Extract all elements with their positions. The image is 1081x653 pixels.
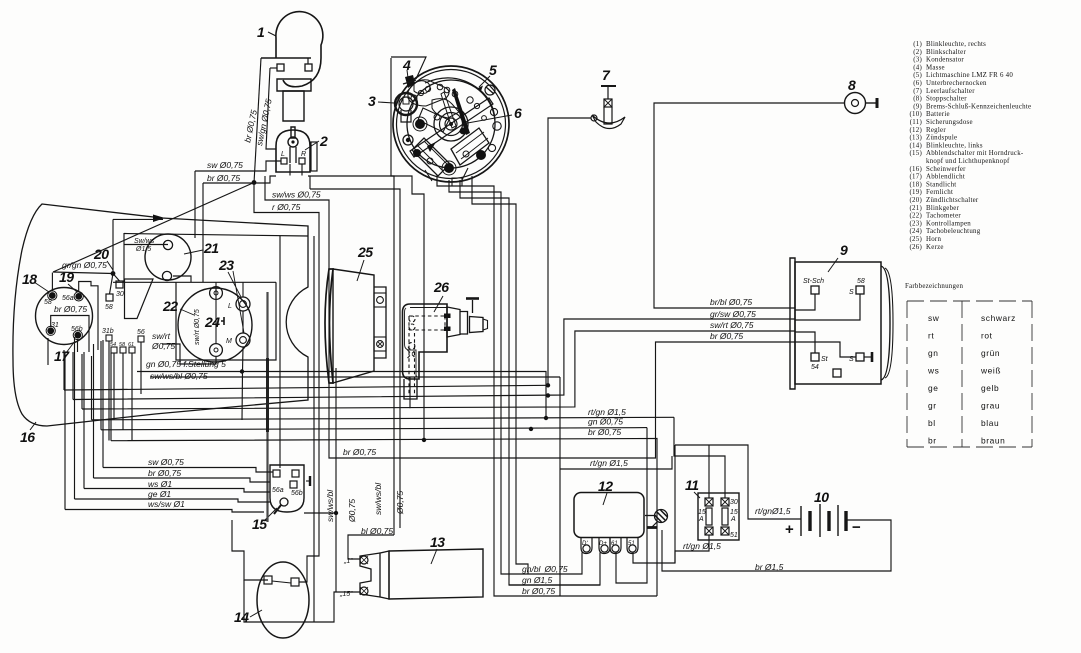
- svg-text:R: R: [301, 151, 306, 158]
- wire stub switch 2 base right: [309, 176, 311, 189]
- svg-text:31: 31: [51, 322, 59, 329]
- flasher relay (21): [134, 234, 219, 281]
- wire terminal 56 down to gr/sw bus: [140, 342, 142, 394]
- svg-text:58: 58: [119, 342, 126, 348]
- svg-text:ge Ø1: ge Ø1: [148, 489, 171, 499]
- svg-text:(3): (3): [913, 57, 922, 64]
- wire horn button feed from switch 15: [304, 512, 336, 514]
- svg-text:(15): (15): [910, 150, 922, 157]
- wire bulb terminal 56a up and right: [79, 282, 98, 351]
- svg-text:br: br: [928, 436, 937, 446]
- turn signal right (1): [257, 12, 323, 121]
- svg-text:Kerze: Kerze: [926, 244, 944, 251]
- svg-text:sw/rt Ø0,75: sw/rt Ø0,75: [710, 320, 754, 330]
- wire terminal 31b down to br bus: [108, 341, 110, 441]
- svg-text:15: 15: [730, 509, 738, 516]
- svg-text:8: 8: [848, 77, 856, 93]
- junction gn f.Stellung / lamp M drop: [240, 369, 244, 373]
- svg-text:Ø1,5: Ø1,5: [135, 246, 151, 253]
- svg-text:Blinkleuchte, links: Blinkleuchte, links: [926, 142, 983, 149]
- svg-text:1: 1: [257, 24, 265, 40]
- wire riser rt/gn at headlight: [91, 356, 93, 420]
- svg-text:Sicherungsdose: Sicherungsdose: [926, 119, 973, 126]
- svg-text:Scheinwerfer: Scheinwerfer: [926, 166, 966, 173]
- svg-text:br Ø0,75: br Ø0,75: [148, 468, 181, 478]
- svg-text:54: 54: [811, 364, 819, 371]
- svg-text:sw/ws/bl Ø0,75: sw/ws/bl Ø0,75: [150, 371, 208, 381]
- svg-text:gr/gn Ø0,75: gr/gn Ø0,75: [62, 260, 107, 270]
- svg-text:A: A: [730, 516, 736, 523]
- svg-text:sw/rt Ø0,75: sw/rt Ø0,75: [194, 309, 201, 345]
- svg-text:bl: bl: [928, 418, 936, 428]
- wire rt/gn 1.5 regulator frame: [560, 456, 672, 469]
- wire lamp M drop to junction: [242, 347, 243, 420]
- wire br 0.75 headlight to blinker switch 2 base: [203, 176, 276, 183]
- wire gr/gn 0.75 horizontal: [53, 272, 113, 274]
- wire sw/ws/bl vertical with junction: [335, 368, 337, 592]
- svg-text:(8): (8): [913, 96, 922, 103]
- terminal strip in headlight: [102, 328, 145, 353]
- svg-text:br Ø0,75: br Ø0,75: [588, 427, 621, 437]
- wire stubs switch 2 terminals L and R: [290, 164, 302, 176]
- svg-text:br/bl Ø0,75: br/bl Ø0,75: [710, 297, 752, 307]
- svg-text:blau: blau: [981, 418, 999, 428]
- svg-text:25: 25: [357, 244, 373, 260]
- wire sw/gn 0.75 from turn signal 1 left terminal to blinker switch 2: [266, 68, 276, 149]
- headlight bulb (17,18,19): [22, 269, 93, 364]
- bottom lug: [452, 178, 462, 186]
- svg-text:sw: sw: [928, 313, 940, 323]
- wire br 0.75 to dimmer switch 15: [94, 478, 271, 482]
- svg-text:sw/ws/bl: sw/ws/bl: [325, 489, 335, 522]
- junction horn button feed: [334, 511, 338, 515]
- wire ws/sw 1 to dimmer switch 15: [65, 510, 264, 513]
- wire br 0.75 drop into headlight: [202, 183, 204, 282]
- svg-text:(19): (19): [910, 189, 922, 196]
- kontrollampen 23: [236, 297, 250, 311]
- svg-text:rt: rt: [928, 331, 934, 341]
- svg-text:grau: grau: [981, 401, 1000, 411]
- svg-text:56a: 56a: [62, 295, 74, 302]
- wire riser br at headlight: [110, 353, 112, 441]
- coils bottom: [412, 138, 450, 176]
- wire gr/sw 0.75 bus to tail light terminal 58: [73, 319, 795, 400]
- svg-text:58: 58: [105, 304, 113, 311]
- svg-text:58: 58: [857, 278, 865, 285]
- wire neutral switch 7 down to rt/gn bus: [548, 118, 591, 385]
- svg-text:18: 18: [22, 271, 37, 287]
- svg-text:gn Ø0,75: gn Ø0,75: [588, 417, 623, 427]
- wire terminal 61 down to br bus: [131, 353, 133, 441]
- screws right: [485, 85, 495, 95]
- wire sw/ws 0.75 from switch 2 base down and right: [265, 176, 329, 280]
- svg-text:Batterie: Batterie: [926, 111, 950, 118]
- wire riser gr/sw at headlight: [63, 350, 65, 390]
- fuse box (11): [685, 477, 739, 540]
- ignition coil (13): [339, 534, 483, 599]
- svg-text:−: −: [852, 519, 861, 536]
- svg-text:Kondensator: Kondensator: [926, 57, 964, 64]
- wire sw/rt 0.75 bus to tail light terminal St: [82, 331, 795, 409]
- wire mid bus to neutral junction: [64, 385, 548, 390]
- svg-text:16: 16: [20, 429, 35, 445]
- svg-text:21: 21: [203, 240, 219, 256]
- svg-text:St-Sch: St-Sch: [803, 278, 824, 285]
- junction node gr/gn: [111, 271, 116, 276]
- wire loop turn signal 14 to ignition coil terminal 15: [244, 580, 360, 622]
- svg-text:rot: rot: [981, 331, 993, 341]
- svg-text:grün: grün: [981, 348, 1000, 358]
- wire between tacho lamps 24: [242, 311, 244, 333]
- svg-text:Tachobeleuchtung: Tachobeleuchtung: [926, 228, 981, 235]
- svg-text:Blinkgeber: Blinkgeber: [926, 205, 960, 212]
- svg-text:(24): (24): [910, 228, 922, 235]
- wire sw 0.75 headlight to blinker switch 2 terminal L: [195, 161, 281, 171]
- svg-text:51: 51: [730, 532, 738, 539]
- svg-text:weiß: weiß: [980, 366, 1001, 376]
- svg-text:gn Ø1,5: gn Ø1,5: [522, 575, 553, 585]
- label 5: [478, 62, 497, 91]
- wire gn 0.75 regulator terminal 61 to gn bus: [616, 428, 647, 583]
- svg-text:D+: D+: [599, 541, 607, 547]
- svg-text:56a: 56a: [272, 487, 284, 494]
- svg-text:61: 61: [128, 342, 134, 348]
- svg-text:A: A: [698, 516, 704, 523]
- wire condenser frame left down to br bus: [391, 58, 424, 440]
- wire below bulb down: [47, 338, 49, 365]
- svg-text:56b: 56b: [71, 326, 83, 333]
- svg-text:Farbbezeichnungen: Farbbezeichnungen: [905, 283, 964, 290]
- colour table: [907, 301, 1032, 447]
- svg-text:rt/gn Ø1,5: rt/gn Ø1,5: [588, 407, 626, 417]
- svg-text:Regler: Regler: [926, 127, 946, 134]
- wire riser ge 1: [74, 337, 76, 499]
- svg-text:15: 15: [252, 516, 267, 532]
- wire bulb terminal 58 to gr/gn: [51, 273, 53, 292]
- battery (10): [785, 489, 861, 538]
- svg-text:Fernlicht: Fernlicht: [926, 189, 953, 196]
- wire bulb terminal 31 ground br: [51, 316, 89, 353]
- wire vertical inside headlight right: [279, 236, 281, 468]
- condenser (3): [368, 93, 417, 122]
- black dots: [403, 135, 413, 145]
- horn (25): [325, 244, 386, 383]
- junction br wire / turn signal feed: [252, 180, 257, 185]
- headlight outline (16): [13, 204, 308, 522]
- svg-text:sw/rt: sw/rt: [152, 331, 171, 341]
- svg-text:(13): (13): [910, 135, 922, 142]
- svg-text:31b: 31b: [102, 328, 114, 335]
- tail light (9): [790, 242, 893, 389]
- wire riser ws 1: [83, 352, 85, 489]
- svg-text:23: 23: [218, 257, 234, 273]
- wire spark plug stem to bus: [409, 377, 411, 408]
- wire sw/ws/bl 0.75 bus: [150, 376, 560, 378]
- svg-text:(21): (21): [910, 205, 922, 212]
- svg-text:ws: ws: [927, 366, 939, 376]
- wire condenser frame top with diagonal to rim: [391, 57, 426, 79]
- svg-text:26: 26: [433, 279, 449, 295]
- svg-text:(1): (1): [913, 41, 922, 48]
- wire r 0.75 from junction to turn signal 14 right terminal: [254, 183, 319, 582]
- wire stub turn signal 1 left terminal: [270, 67, 277, 69]
- wire gn 1.5 alternator to regulator terminal D+: [460, 180, 600, 585]
- svg-text:br Ø0,75: br Ø0,75: [54, 304, 87, 314]
- svg-text:Tachometer: Tachometer: [926, 213, 961, 220]
- svg-text:(5): (5): [913, 72, 922, 79]
- svg-text:56: 56: [137, 329, 145, 336]
- wire gn 1.5 horizontal to terminal D+: [509, 584, 600, 586]
- svg-text:braun: braun: [981, 436, 1005, 446]
- svg-text:15: 15: [698, 509, 706, 516]
- svg-text:sw/ws/bl: sw/ws/bl: [373, 482, 383, 515]
- svg-text:Ø0,75: Ø0,75: [151, 341, 175, 351]
- svg-text:(4): (4): [913, 64, 922, 71]
- svg-text:Abblendschalter mit Horndruck-: Abblendschalter mit Horndruck-: [926, 150, 1024, 157]
- svg-text:19: 19: [59, 269, 74, 285]
- svg-text:+: +: [785, 521, 794, 538]
- wire vertical from headlight top edge to coil loop: [313, 236, 315, 622]
- svg-text:30: 30: [116, 291, 124, 298]
- svg-text:(14): (14): [910, 142, 922, 149]
- wire switch 2 base to vertical x394 down to bl wire: [308, 176, 394, 535]
- wire alternator ignition feed: [472, 176, 528, 574]
- svg-text:M: M: [226, 338, 232, 345]
- svg-text:gr: gr: [928, 401, 937, 411]
- svg-text:gn/bl Ø0,75: gn/bl Ø0,75: [522, 564, 568, 574]
- svg-text:rt/gn Ø1,5: rt/gn Ø1,5: [683, 541, 721, 551]
- svg-text:br Ø0,75: br Ø0,75: [522, 586, 555, 596]
- wire terminal 54 down to rt/gn bus: [113, 353, 115, 420]
- svg-text:br Ø0,75: br Ø0,75: [207, 173, 240, 183]
- wire rt/gn 1.5 bus: [92, 417, 675, 420]
- svg-text:24: 24: [204, 314, 220, 330]
- wire terminal 58 down to gn bus: [122, 353, 124, 430]
- svg-text:30: 30: [730, 499, 738, 506]
- svg-text:St: St: [821, 356, 829, 363]
- wire gn 0.75 f.Stellung 5: [137, 372, 546, 419]
- svg-text:sw Ø0,75: sw Ø0,75: [148, 457, 184, 467]
- svg-text:13: 13: [430, 534, 445, 550]
- svg-text:Blinkschalter: Blinkschalter: [926, 49, 966, 56]
- wire turn signal 14 left terminal staircase: [232, 520, 268, 580]
- svg-text:(9): (9): [913, 103, 922, 110]
- svg-text:br Ø0,75: br Ø0,75: [710, 331, 743, 341]
- svg-text:S: S: [849, 289, 854, 296]
- neutral switch (7): [591, 67, 625, 129]
- svg-text:Leerlaufschalter: Leerlaufschalter: [926, 88, 975, 95]
- junction gn bus: [529, 427, 533, 431]
- svg-text:rt/gnØ1,5: rt/gnØ1,5: [755, 506, 791, 516]
- pointer triangle: [427, 142, 436, 152]
- svg-text:12: 12: [598, 478, 613, 494]
- svg-text:5: 5: [489, 62, 497, 78]
- wire gr/gn 0.75 diagonal to junction: [53, 183, 254, 273]
- svg-text:Brems-Schluß-Kennzeichenleucht: Brems-Schluß-Kennzeichenleuchte: [926, 103, 1031, 110]
- wire rt/gn 1.5 riser between fuse bus and 51: [674, 445, 676, 563]
- svg-text:Ø0,75: Ø0,75: [395, 491, 405, 515]
- junction leerlauf wire / rt-gn bus: [546, 393, 550, 397]
- svg-text:58: 58: [44, 299, 52, 306]
- svg-text:br Ø1,5: br Ø1,5: [755, 562, 784, 572]
- svg-text:br Ø0,75: br Ø0,75: [343, 447, 376, 457]
- junction br bus / condenser frame: [422, 438, 426, 442]
- svg-text:Zündspule: Zündspule: [926, 135, 957, 142]
- wire riser gn at headlight: [100, 341, 102, 430]
- svg-text:11: 11: [685, 477, 699, 493]
- breaker bar diagonal: [410, 98, 493, 157]
- wire bulb terminal 56b down: [77, 339, 79, 352]
- slot groups with circles: [411, 95, 417, 101]
- svg-text:gn: gn: [928, 348, 939, 358]
- wire rt/gn 1.5 fuse to battery plus: [675, 445, 801, 519]
- wire br 1.5 battery minus to ground screw: [662, 520, 891, 571]
- svg-text:Lichtmaschine LMZ FR 6 40: Lichtmaschine LMZ FR 6 40: [926, 72, 1013, 79]
- wire gn 0.75 bus: [101, 428, 647, 430]
- svg-text:(20): (20): [910, 197, 922, 204]
- svg-text:Unterbrechernocken: Unterbrechernocken: [926, 80, 987, 87]
- svg-text:(2): (2): [913, 49, 922, 56]
- svg-text:(25): (25): [910, 236, 922, 243]
- svg-text:(22): (22): [910, 213, 922, 220]
- wire br 0.75 from turn signal 1 right terminal down to junction: [254, 58, 261, 183]
- wire forks from node to ignition switch terminals 30 and 58: [110, 274, 120, 295]
- svg-text:(12): (12): [910, 127, 922, 134]
- svg-text:Abblendlicht: Abblendlicht: [926, 174, 965, 181]
- svg-text:L: L: [281, 151, 285, 158]
- svg-text:(16): (16): [910, 166, 922, 173]
- svg-text:10: 10: [814, 489, 829, 505]
- junction gn f.Stellung / rt-gn bus: [544, 416, 548, 420]
- wire flasher 21 bottom terminal to tacho box: [173, 276, 191, 282]
- svg-text:Zündlichtschalter: Zündlichtschalter: [926, 197, 979, 204]
- wire sw 0.75 drop into headlight: [194, 171, 196, 238]
- svg-text:Stoppschalter: Stoppschalter: [926, 96, 967, 103]
- wire riser br 0.75: [93, 344, 95, 478]
- svg-text:Kontrollampen: Kontrollampen: [926, 220, 971, 227]
- svg-text:7: 7: [602, 67, 611, 83]
- wire br/bl 0.75 stop switch 8 to tail light terminal St-Sch: [654, 103, 845, 308]
- svg-text:22: 22: [162, 298, 178, 314]
- breaker assembly top-left: [408, 80, 449, 106]
- regulator (12): [574, 478, 668, 554]
- svg-text:Standlicht: Standlicht: [926, 181, 956, 188]
- junction leerlauf wire / mid bus: [546, 383, 550, 387]
- svg-text:Dʹ: Dʹ: [582, 540, 588, 547]
- alternator (5) with condenser (3), masse (4), breaker (6): [393, 66, 509, 186]
- wire sw/rt 0.75 tacho lamp to terminal 56: [162, 344, 216, 364]
- svg-text:(7): (7): [913, 88, 922, 95]
- wire sw/ws/bl vertical at regulator frame left: [559, 377, 561, 596]
- svg-text:gelb: gelb: [981, 383, 999, 393]
- svg-text:Horn: Horn: [926, 236, 941, 243]
- wire box top around flasher 21: [113, 218, 163, 220]
- stop switch (8): [845, 77, 878, 114]
- wire br 0.75 bus to ground point: [111, 439, 657, 597]
- svg-text:ws/sw Ø1: ws/sw Ø1: [148, 499, 185, 509]
- svg-text:r Ø0,75: r Ø0,75: [272, 202, 301, 212]
- ignition light switch terminals (20): [93, 246, 124, 311]
- spark plug (26): [403, 279, 488, 399]
- svg-text:knopf und Lichthupenknopf: knopf und Lichthupenknopf: [926, 158, 1010, 165]
- svg-text:Ø0,75: Ø0,75: [347, 499, 357, 523]
- svg-text:(6): (6): [913, 80, 922, 87]
- wire rt/gn 1.5 fuse terminal 30 riser: [674, 417, 725, 498]
- svg-text:14: 14: [234, 609, 249, 625]
- wire ws 1 to dimmer switch 15: [84, 489, 270, 493]
- svg-text:Blinkleuchte, rechts: Blinkleuchte, rechts: [926, 41, 986, 48]
- svg-text:L: L: [228, 303, 232, 310]
- dimmer switch (15): [252, 465, 310, 532]
- svg-text:61: 61: [611, 541, 618, 547]
- svg-text:(23): (23): [910, 220, 922, 227]
- svg-text:sw/ws Ø0,75: sw/ws Ø0,75: [272, 190, 321, 200]
- svg-text:ge: ge: [928, 383, 939, 393]
- wire riser ws/sw 1: [64, 352, 66, 510]
- wire tacho lamp 24 top to box: [215, 287, 217, 299]
- wire br 0.75 to tail light terminal S: [329, 280, 795, 458]
- svg-text:4: 4: [402, 57, 411, 73]
- speedometer (22) with lamps: [113, 257, 276, 362]
- svg-text:56b: 56b: [291, 490, 303, 497]
- svg-text:51: 51: [628, 541, 635, 547]
- svg-text:54: 54: [110, 342, 116, 348]
- svg-text:Masse: Masse: [926, 64, 945, 71]
- svg-text:bl Ø0,75: bl Ø0,75: [361, 526, 393, 536]
- label 6: [462, 105, 522, 124]
- svg-text:sw Ø0,75: sw Ø0,75: [207, 160, 243, 170]
- svg-text:ws Ø1: ws Ø1: [148, 479, 172, 489]
- wire sw 0.75 to dimmer switch 15: [103, 468, 273, 473]
- wire ge 1 to dimmer switch 15: [75, 499, 271, 502]
- svg-text:9: 9: [840, 242, 848, 258]
- wire rt/gn 1.5 regulator terminal 51 to fuse box: [633, 535, 709, 563]
- wire inner box top to vertical x314: [124, 234, 308, 237]
- masse (4): [402, 57, 416, 88]
- turn signal left (14): [234, 562, 309, 638]
- svg-text:(26): (26): [910, 244, 922, 251]
- svg-text:(18): (18): [910, 181, 922, 188]
- wire gn/bl 0.75 alternator to regulator terminal D: [449, 180, 582, 574]
- wire bl 0.75 ignition coil terminal 1: [348, 535, 394, 559]
- svg-text:schwarz: schwarz: [981, 313, 1016, 323]
- wire riser sw/rt at headlight: [72, 352, 74, 400]
- wire box left around flasher 21: [112, 219, 114, 273]
- svg-text:2: 2: [319, 133, 328, 149]
- svg-text:6: 6: [514, 105, 522, 121]
- svg-text:(10): (10): [910, 111, 922, 118]
- wire flasher 21 top terminal to box: [124, 244, 168, 246]
- svg-text:gr/sw Ø0,75: gr/sw Ø0,75: [710, 309, 756, 319]
- blinker switch (2): [276, 127, 328, 172]
- svg-text:3: 3: [368, 93, 376, 109]
- wire inner box left: [123, 233, 125, 282]
- wire riser sw 0.75: [102, 340, 104, 468]
- svg-text:(17): (17): [910, 174, 922, 181]
- wire switch 2 right base to vertical x400: [310, 189, 400, 528]
- svg-text:gn Ø0,75 f.Stellung 5: gn Ø0,75 f.Stellung 5: [146, 359, 226, 369]
- wire riser mid bus at headlight: [81, 354, 83, 409]
- wire br 0.75 alternator ground to regulator area screw: [437, 175, 657, 596]
- ground screw: [645, 515, 654, 517]
- svg-text:rt/gn Ø1,5: rt/gn Ø1,5: [590, 458, 628, 468]
- svg-text:(11): (11): [910, 119, 922, 126]
